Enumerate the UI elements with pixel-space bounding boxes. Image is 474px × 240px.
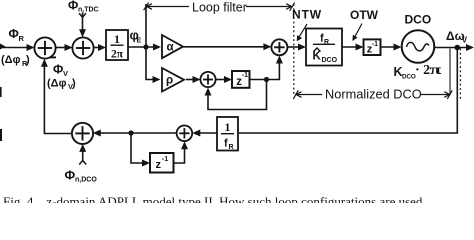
arrow into S2b from rho xyxy=(193,76,201,83)
wire alpha to S3 xyxy=(183,46,268,48)
svg-text:2π: 2π xyxy=(111,49,124,61)
arrow into S1 xyxy=(27,44,35,51)
chevron phi_nTDC start xyxy=(79,13,86,17)
label Normalized DCO dimension xyxy=(297,94,449,96)
DCO oscillator circle xyxy=(402,30,435,63)
wire S5 left and up to S1 xyxy=(44,63,72,134)
arrow phi_nDCO into S5 bottom xyxy=(79,144,86,152)
svg-text:(Δφ: (Δφ xyxy=(1,54,21,66)
arrowheads xyxy=(0,29,474,166)
amplifier alpha xyxy=(162,35,183,58)
node bottom accumulator xyxy=(128,130,133,135)
wire input to S1 xyxy=(2,47,31,49)
wire phi_nTDC arrow line xyxy=(82,13,84,35)
svg-text:R: R xyxy=(324,39,329,46)
chevron phi_nDCO start xyxy=(79,161,86,165)
svg-text:f: f xyxy=(224,138,228,150)
svg-text:Loop filter: Loop filter xyxy=(192,1,247,15)
summer S1 xyxy=(34,37,55,58)
block 1/2pi xyxy=(106,30,128,61)
svg-text:Φ: Φ xyxy=(65,168,76,183)
svg-text:R: R xyxy=(19,34,25,43)
block fR/KDCO xyxy=(306,29,342,66)
arrow into S1 bottom xyxy=(41,59,48,67)
label Loop filter dimension xyxy=(148,6,292,8)
wire 1/f_R to S4 xyxy=(196,132,217,134)
svg-text:-1: -1 xyxy=(162,154,168,163)
arrow into rho xyxy=(153,76,161,83)
svg-text:-1: -1 xyxy=(242,72,248,79)
summer S2b rho xyxy=(200,72,215,87)
arrow into S5 from right xyxy=(93,130,101,137)
block z-1 bottom xyxy=(150,153,174,173)
svg-text:1: 1 xyxy=(114,32,120,46)
svg-text:z: z xyxy=(156,159,162,171)
wire S2 to 1/2pi xyxy=(94,47,104,49)
svg-text:K: K xyxy=(313,51,322,63)
svg-text:n,DCO: n,DCO xyxy=(75,177,97,184)
svg-text:n,TDC: n,TDC xyxy=(78,7,99,14)
arrow accumulator into S2b bottom xyxy=(205,88,212,96)
svg-text:OTW: OTW xyxy=(350,8,379,22)
svg-text:V: V xyxy=(462,35,468,44)
wire S4 to S5 xyxy=(97,132,177,134)
svg-text:): ) xyxy=(72,77,76,89)
summer S4 xyxy=(177,126,193,142)
svg-text:π: π xyxy=(430,62,442,77)
svg-text:α: α xyxy=(167,42,174,54)
node output xyxy=(455,45,461,51)
arrow into S2 xyxy=(65,44,73,51)
block 1/f_R xyxy=(217,117,238,151)
wire feedback right side down and bottom xyxy=(238,48,457,134)
block z-1 top xyxy=(364,39,381,55)
wire S3 to KDCO block xyxy=(287,46,303,48)
svg-text:R: R xyxy=(229,144,234,151)
svg-text:DCO: DCO xyxy=(405,13,432,27)
svg-text:ρ: ρ xyxy=(166,75,173,87)
summer S3 xyxy=(271,39,287,55)
svg-text:E: E xyxy=(137,38,142,45)
amplifier rho xyxy=(162,68,184,92)
arrow into z-1 rho xyxy=(224,76,232,83)
arrow phi_nTDC into S2 top xyxy=(79,29,86,37)
svg-text:-1: -1 xyxy=(372,41,378,48)
svg-text:Fig. 4. z-domain ADPLL model: Fig. 4. z-domain ADPLL model type II. Ho… xyxy=(3,194,426,203)
wire rho accumulator loop xyxy=(208,80,267,110)
wire z-1 to DCO xyxy=(381,46,399,48)
wire S2b to z-1 rho xyxy=(216,79,229,81)
summer S5 xyxy=(72,123,93,144)
wire rho to S2b xyxy=(186,79,198,81)
svg-text:· 2: · 2 xyxy=(415,63,430,78)
arrow into 1/2pi xyxy=(98,44,106,51)
arrow into bottom z-1 xyxy=(142,160,150,167)
dotted line right of feedback xyxy=(459,49,461,102)
arrow NTW to wire xyxy=(297,24,307,41)
wire S1 to S2 xyxy=(56,47,70,49)
arrow into S4 from right xyxy=(192,130,200,137)
wire bottom accumulator node down to z-1 xyxy=(131,133,147,163)
wire DCO to output xyxy=(435,47,468,49)
arrow input start xyxy=(0,44,6,50)
wire bottom z-1 up to S4 xyxy=(174,145,185,163)
wire KDCO block to z-1 xyxy=(342,46,360,48)
summer S2 xyxy=(72,37,93,58)
arrow into DCO xyxy=(394,44,402,51)
svg-text:Φ: Φ xyxy=(68,0,78,12)
svg-text:NTW: NTW xyxy=(292,8,322,22)
arrow into alpha xyxy=(153,44,161,51)
arrow rho path into S3 bottom xyxy=(276,56,283,64)
arrow into S3 from alpha xyxy=(263,43,271,50)
node rho accumulator xyxy=(264,77,269,82)
arrow output right xyxy=(466,44,474,51)
svg-text:Φ: Φ xyxy=(9,27,19,41)
svg-text:Normalized DCO: Normalized DCO xyxy=(325,87,422,102)
dotted line NTW xyxy=(293,4,295,95)
left margin scan marks xyxy=(0,87,2,97)
svg-text:): ) xyxy=(26,54,30,66)
wire node down to rho xyxy=(146,4,158,80)
wire 1/2pi to alpha xyxy=(128,46,158,48)
svg-text:DCO: DCO xyxy=(322,57,338,64)
block z-1 rho xyxy=(232,71,250,88)
arrow OTW to wire xyxy=(352,24,362,42)
wire z-1 rho up to S3 xyxy=(250,60,280,80)
arrow into S4 bottom xyxy=(181,141,188,149)
arrow into KDCO block xyxy=(298,44,306,51)
arrow into z-1 top xyxy=(356,44,364,51)
dotted line Normalized DCO right xyxy=(449,49,451,95)
wire phi_nDCO arrow line xyxy=(82,148,84,162)
svg-text:DCO: DCO xyxy=(402,74,416,81)
svg-text:Φ: Φ xyxy=(53,63,63,77)
node phi_E xyxy=(143,44,148,49)
svg-text:(Δφ: (Δφ xyxy=(47,77,67,89)
svg-text:1: 1 xyxy=(225,120,231,134)
label minus xyxy=(49,56,56,58)
